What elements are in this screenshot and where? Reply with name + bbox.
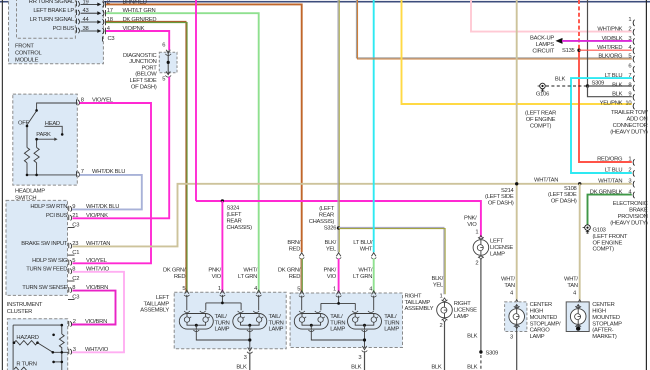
svg-text:VIO/BLK: VIO/BLK [602, 36, 623, 42]
svg-text:LICENSE: LICENSE [454, 308, 477, 314]
svg-text:RED: RED [289, 246, 301, 252]
svg-text:5: 5 [72, 258, 75, 264]
label PNK/VIO right taillamp pin 1 [324, 267, 337, 292]
svg-text:MOUNTED: MOUNTED [592, 315, 620, 321]
splice S135 [562, 48, 581, 54]
IC pin HDLP SW SIG 5 [32, 258, 108, 266]
splice S309 upper [586, 80, 604, 87]
FCM pin PCI BUS [53, 26, 115, 42]
svg-text:BACK-UP: BACK-UP [530, 36, 554, 42]
label BLK/YEL above chevron [324, 240, 337, 252]
wire BLK from left license lamp to S309 lower [467, 259, 481, 353]
svg-text:TURN: TURN [330, 320, 345, 326]
svg-text:R TURN: R TURN [16, 361, 36, 367]
svg-text:2: 2 [628, 27, 631, 33]
label DK GRN/RED right taillamp pin 5 [278, 267, 301, 292]
svg-text:3: 3 [628, 36, 631, 42]
right license lamp [431, 276, 477, 329]
IC pin TURN SW SENSE 8 [22, 285, 108, 300]
svg-text:4: 4 [254, 286, 258, 292]
svg-text:VIO: VIO [327, 274, 337, 280]
headlamp switch pin 8 [77, 98, 114, 106]
svg-text:LT BLU: LT BLU [605, 168, 623, 174]
svg-text:LT BLU: LT BLU [605, 73, 623, 79]
svg-text:WHT/DK BLU: WHT/DK BLU [86, 204, 119, 210]
svg-text:PORT: PORT [142, 65, 158, 71]
center high mounted stoplamp aftermarket box [566, 302, 622, 340]
svg-text:1: 1 [475, 229, 478, 235]
connector chevron on BRN/RED feed [299, 253, 304, 259]
svg-text:LR TURN SIGNAL: LR TURN SIGNAL [30, 17, 75, 23]
svg-text:YEL: YEL [433, 282, 444, 288]
svg-text:(LEFT FRONT: (LEFT FRONT [593, 234, 628, 240]
svg-text:3: 3 [628, 179, 631, 185]
wire BLK from right license lamp to bottom [431, 321, 444, 370]
svg-text:1: 1 [440, 293, 443, 299]
wire BLK from top edge to S309 [587, 0, 589, 86]
hazard switch pin 2 [69, 319, 107, 327]
connector chevron on LT BLU/WHT feed [371, 253, 376, 259]
svg-text:BLK/ORG: BLK/ORG [598, 54, 623, 60]
svg-text:RED: RED [174, 274, 186, 280]
svg-text:WHT/TAN: WHT/TAN [534, 178, 558, 184]
wire YEL/PNK from top edge to trailer tow pin 10 [402, 0, 632, 104]
svg-text:S135: S135 [562, 48, 575, 54]
svg-text:(LEFT REAR: (LEFT REAR [525, 111, 556, 117]
right taillamp assembly box [290, 293, 402, 348]
svg-text:19: 19 [83, 0, 89, 5]
cargo lamp WHT/TAN label and pin 4 [501, 276, 519, 306]
svg-text:TAIL/: TAIL/ [384, 314, 397, 320]
wire PNK/VIO below chevron to right taillamp pin 1 [338, 259, 340, 293]
svg-text:ASSEMBLY: ASSEMBLY [140, 308, 169, 314]
svg-text:ASSEMBLY: ASSEMBLY [405, 306, 434, 312]
svg-text:PROVISION: PROVISION [618, 214, 648, 220]
left taillamp assembly label [140, 295, 169, 314]
svg-text:4: 4 [573, 291, 577, 297]
hazard switch box [7, 319, 67, 370]
diagnostic junction port [123, 43, 177, 91]
svg-text:STOPLAMP/: STOPLAMP/ [530, 321, 561, 327]
svg-text:CENTER: CENTER [592, 302, 614, 308]
FCM pin LR TURN SIGNAL [30, 17, 113, 25]
svg-text:TURN: TURN [384, 320, 399, 326]
svg-text:8: 8 [628, 82, 631, 88]
svg-text:5: 5 [628, 54, 631, 60]
back-up lamps circuit arrow on VIO/BLK [530, 36, 632, 55]
svg-text:DIAGNOSTIC: DIAGNOSTIC [123, 53, 157, 59]
svg-text:PNK/: PNK/ [324, 267, 337, 273]
svg-text:CHASSIS): CHASSIS) [309, 219, 335, 225]
svg-text:LAMP: LAMP [384, 327, 399, 333]
svg-text:OF DASH): OF DASH) [131, 84, 157, 90]
svg-text:MOUNTED: MOUNTED [530, 315, 558, 321]
svg-text:2: 2 [628, 168, 631, 174]
svg-text:LICENSE: LICENSE [490, 245, 513, 251]
svg-text:CARGO: CARGO [530, 328, 551, 334]
svg-text:(LEFT: (LEFT [319, 206, 335, 212]
right taillamp internal wiring [302, 296, 374, 311]
svg-text:LT BLU/: LT BLU/ [353, 240, 373, 246]
svg-text:WHT/: WHT/ [564, 276, 578, 282]
label WHT/LT GRN right taillamp pin 4 [353, 267, 373, 292]
svg-text:DK GRN/: DK GRN/ [163, 267, 186, 273]
svg-text:3: 3 [244, 355, 247, 361]
svg-text:S108: S108 [564, 186, 577, 192]
svg-text:HIGH: HIGH [530, 309, 544, 315]
svg-text:VIO: VIO [212, 274, 222, 280]
page top border [0, 1, 650, 3]
svg-text:LAMP: LAMP [215, 327, 230, 333]
svg-text:G106: G106 [536, 91, 549, 97]
svg-text:OF ENGINE: OF ENGINE [593, 240, 623, 246]
svg-text:1: 1 [628, 157, 631, 163]
svg-text:PCI BUS: PCI BUS [46, 213, 68, 219]
svg-text:9: 9 [72, 204, 75, 210]
wire WHT/LT GRN below chevron to right taillamp pin 4 [373, 259, 375, 293]
svg-text:OF ENGINE: OF ENGINE [526, 117, 556, 123]
svg-text:(BELOW: (BELOW [135, 72, 157, 78]
svg-text:FRONT: FRONT [15, 43, 34, 49]
svg-text:4: 4 [510, 291, 514, 297]
svg-text:3: 3 [358, 355, 361, 361]
wire BLK left taillamp pin 3 to bottom [236, 353, 249, 370]
svg-text:9: 9 [628, 92, 631, 98]
left taillamp bulb 2 TAIL/TURN LAMP [233, 311, 284, 333]
svg-text:LEFT: LEFT [490, 239, 504, 245]
svg-text:LT GRN: LT GRN [238, 274, 257, 280]
svg-text:43: 43 [83, 8, 89, 14]
svg-text:44: 44 [83, 17, 90, 23]
svg-text:ELECTRONIC: ELECTRONIC [613, 201, 648, 207]
svg-text:BLK: BLK [612, 82, 623, 88]
left taillamp assembly box [174, 292, 286, 349]
splice S324 [221, 199, 252, 231]
connector chevron on BLK/YEL feed [336, 253, 341, 259]
svg-text:(LEFT: (LEFT [227, 212, 243, 218]
svg-text:JUNCTION: JUNCTION [129, 59, 156, 65]
svg-text:BLK: BLK [351, 365, 362, 370]
svg-text:BLK: BLK [612, 92, 623, 98]
wire DK GRN/BLK from electronic brake pin 4 to G103 [588, 195, 632, 225]
svg-text:7: 7 [628, 73, 631, 79]
svg-text:TRAILER TOW: TRAILER TOW [611, 110, 648, 116]
svg-text:TAILLAMP: TAILLAMP [143, 301, 169, 307]
svg-text:TURN: TURN [215, 320, 230, 326]
wire VIO/PNK from FCM pin 4 to diagnostic port [106, 26, 169, 50]
svg-text:5: 5 [297, 287, 300, 293]
wire BLK dashed from G106 to S309 [546, 77, 588, 86]
wire BLK/ORG from top edge to trailer tow pin 5 [356, 0, 631, 59]
svg-text:WHT/PNK: WHT/PNK [597, 27, 622, 33]
right taillamp assembly label [405, 293, 434, 312]
svg-text:LEFT BRAKE LP: LEFT BRAKE LP [33, 8, 74, 14]
svg-text:BRN/: BRN/ [287, 240, 300, 246]
right taillamp ground bus [311, 330, 367, 352]
svg-text:S324: S324 [227, 206, 241, 212]
wire BLK dashed below S309 [467, 355, 481, 370]
wire PNK/VIO from S324 down to left taillamp pin 1 [221, 201, 223, 292]
svg-text:(AFTER-: (AFTER- [592, 328, 613, 334]
svg-text:MARKET): MARKET) [592, 334, 617, 340]
svg-text:2: 2 [475, 260, 478, 266]
wire VIO/PNK vertical from top edge to S324 line [195, 0, 197, 201]
left taillamp internal wiring [187, 295, 259, 310]
left taillamp ground bus [196, 330, 252, 354]
svg-text:COMPT): COMPT) [530, 123, 552, 129]
wire VIO/BRN from IC pin 8 to hazard switch pin 2 [72, 291, 116, 325]
svg-text:PARK: PARK [36, 132, 51, 138]
svg-text:LAMP: LAMP [530, 334, 545, 340]
splice S108 on WHT/TAN line [548, 182, 581, 205]
svg-text:G103: G103 [593, 228, 606, 234]
svg-text:BLK: BLK [236, 365, 247, 370]
svg-text:2: 2 [440, 323, 443, 329]
svg-text:LAMP: LAMP [269, 327, 284, 333]
svg-text:BLK: BLK [431, 365, 442, 370]
trailer tow connector label [610, 110, 648, 135]
svg-text:HEADLAMP: HEADLAMP [15, 189, 45, 195]
svg-text:COMPT): COMPT) [593, 247, 615, 253]
svg-text:OF DASH): OF DASH) [488, 201, 514, 207]
wire WHT/DK BLU to instrument cluster pin 9 [72, 175, 142, 210]
svg-text:BLK/: BLK/ [431, 276, 443, 282]
svg-text:RIGHT: RIGHT [454, 301, 471, 307]
svg-text:BRAKE SW INPUT: BRAKE SW INPUT [21, 241, 68, 247]
svg-text:CIRCUIT: CIRCUIT [532, 49, 554, 55]
svg-text:YEL: YEL [326, 246, 337, 252]
wire BLK cargo lamp pin 3 to bottom [510, 332, 517, 370]
svg-text:RR TURN SIGNAL: RR TURN SIGNAL [29, 0, 75, 5]
wire DK GRN/RED below chevron to right taillamp pin 5 [301, 259, 302, 293]
svg-text:TAIL/: TAIL/ [269, 314, 282, 320]
svg-text:ADD ON: ADD ON [627, 117, 648, 123]
svg-text:PNK/: PNK/ [208, 267, 221, 273]
svg-text:LAMP: LAMP [490, 251, 505, 257]
svg-text:WHT/: WHT/ [501, 276, 515, 282]
svg-text:BLK: BLK [467, 365, 478, 370]
headlamp switch internals [18, 103, 76, 176]
svg-text:CONTROL: CONTROL [15, 50, 43, 56]
label DK GRN/RED left taillamp pin 5 [163, 267, 186, 292]
svg-text:LAMPS: LAMPS [536, 42, 555, 48]
svg-text:OFF: OFF [18, 120, 30, 126]
svg-text:VIO/PNK: VIO/PNK [86, 213, 108, 219]
electronic brake connector label [610, 201, 648, 226]
right taillamp entry pins [299, 291, 377, 297]
svg-text:2: 2 [73, 319, 76, 325]
left license lamp [464, 216, 513, 267]
wire BLK/YEL branch S326 to right license lamp [339, 227, 446, 294]
wire WHT/VIO from IC pin 8 to hazard switch pin 3 [72, 272, 125, 353]
svg-text:HAZARD: HAZARD [16, 335, 38, 341]
svg-text:TAIL/: TAIL/ [215, 314, 228, 320]
svg-text:C3: C3 [108, 36, 115, 42]
wire WHT/LT GRN from FCM pin 17 [106, 8, 259, 292]
wire BLK/YEL vertical from top edge through S326 [338, 0, 339, 252]
svg-text:RED: RED [289, 274, 301, 280]
svg-text:STOPLAMP: STOPLAMP [592, 321, 622, 327]
svg-text:PCI BUS: PCI BUS [53, 26, 75, 32]
svg-text:LT GRN: LT GRN [353, 274, 372, 280]
page right border [646, 0, 647, 370]
svg-text:LEFT SIDE: LEFT SIDE [130, 78, 157, 84]
wire WHT/TAN from IC pin 23 long horizontal to electronic brake pin 3 [73, 184, 632, 247]
label BRN/RED above chevron [287, 240, 300, 252]
svg-text:(HEAVY DUTY): (HEAVY DUTY) [610, 220, 648, 226]
FCM pin RR TURN SIGNAL [29, 0, 110, 8]
headlamp switch pin 7 [77, 169, 126, 177]
FCM pin LEFT BRAKE LP [33, 8, 112, 16]
wire BLK right taillamp pin 3 to bottom [351, 351, 364, 370]
center high mounted stoplamp cargo lamp box [505, 302, 561, 340]
splice S214 on WHT/TAN line [485, 178, 558, 207]
svg-text:WHT/RED: WHT/RED [597, 45, 622, 51]
svg-text:BLK: BLK [555, 77, 566, 83]
wire WHT/TAN from S108 down to aftermarket stoplamp [579, 184, 581, 300]
instrument cluster box [6, 200, 68, 314]
svg-text:BLK/: BLK/ [324, 240, 336, 246]
svg-text:LEFT: LEFT [156, 295, 170, 301]
svg-text:CENTER: CENTER [530, 302, 552, 308]
IC pin BRAKE SW INPUT 23 [21, 241, 110, 256]
wire BLK from S309 to trailer pin 9 [588, 86, 632, 97]
svg-text:INSTRUMENT: INSTRUMENT [7, 302, 43, 308]
svg-text:VIO/YEL: VIO/YEL [86, 258, 108, 264]
svg-text:RIGHT: RIGHT [405, 293, 422, 299]
svg-text:4: 4 [369, 287, 373, 293]
trailer tow connector pins [597, 17, 634, 109]
wire VIO/YEL to instrument cluster pin 5 [73, 103, 152, 263]
svg-text:VIO/BRN: VIO/BRN [85, 319, 107, 325]
splice S326 [309, 206, 341, 232]
svg-text:TAIL/: TAIL/ [330, 314, 343, 320]
aftermarket stoplamp WHT/TAN label and pin 4 [564, 276, 582, 306]
svg-text:5: 5 [162, 77, 165, 83]
wire LT BLU/WHT vertical from top edge [373, 0, 375, 252]
wire VIO/PNK diagnostic port to instrument cluster pin 21 [73, 77, 170, 219]
svg-text:5: 5 [182, 286, 185, 292]
svg-text:LAMP: LAMP [330, 327, 345, 333]
wire DK GRN/RED from FCM pin 18 [106, 17, 187, 292]
right taillamp bulb 1 TAIL/TURN LAMP [294, 311, 345, 333]
label PNK/VIO left taillamp pin 1 [208, 267, 221, 292]
svg-text:TAN: TAN [567, 283, 577, 289]
svg-text:TURN SW FEED: TURN SW FEED [26, 266, 67, 272]
svg-text:TAILLAMP: TAILLAMP [405, 300, 431, 306]
svg-text:6: 6 [628, 64, 631, 70]
svg-text:WHT/TAN: WHT/TAN [598, 179, 622, 185]
svg-text:(LEFT SIDE: (LEFT SIDE [485, 194, 514, 200]
svg-text:PNK/: PNK/ [464, 216, 477, 222]
svg-text:RED/ORG: RED/ORG [597, 157, 623, 163]
svg-text:HDLP SW SIG: HDLP SW SIG [32, 258, 68, 264]
left taillamp bulb 1 TAIL/TURN LAMP [179, 311, 229, 333]
svg-text:WHT/VIO: WHT/VIO [85, 347, 109, 353]
svg-text:3: 3 [510, 334, 513, 340]
left taillamp entry pins [184, 290, 262, 296]
svg-text:6: 6 [162, 43, 165, 49]
svg-text:10: 10 [625, 100, 631, 106]
svg-text:1: 1 [333, 287, 336, 293]
svg-text:CHASSIS): CHASSIS) [227, 225, 253, 231]
svg-text:BRAKE: BRAKE [629, 208, 648, 214]
svg-text:VIO: VIO [467, 222, 477, 228]
svg-text:REAR: REAR [227, 218, 242, 224]
svg-text:BLK: BLK [467, 334, 478, 340]
wire WHT/RED dashed from top edge [578, 0, 580, 49]
svg-text:CLUSTER: CLUSTER [7, 309, 32, 315]
svg-text:WHT: WHT [360, 246, 373, 252]
svg-text:DK GRN/: DK GRN/ [278, 267, 301, 273]
electronic brake connector pins [590, 157, 635, 199]
label WHT/LT GRN left taillamp pin 4 [238, 267, 258, 292]
wire PNK/VIO S324 horizontal to left license lamp [196, 201, 481, 237]
svg-text:CONNECTOR: CONNECTOR [613, 123, 648, 129]
svg-text:1: 1 [218, 286, 221, 292]
svg-text:OF DASH): OF DASH) [551, 199, 577, 205]
ground G106 [525, 83, 556, 129]
wire RED/ORG from S135 to trailer tow pin 1 of electronic brake [579, 49, 632, 162]
page left border [2, 0, 3, 370]
wire LT BLU big loop trailer pin 7 to electronic brake pin 2 [571, 78, 632, 173]
wire WHT/RED from S135 to trailer tow pin 4 [579, 49, 632, 51]
svg-text:S309: S309 [486, 350, 499, 356]
IC pin PCI BUS 21 [46, 213, 108, 229]
svg-text:MODULE: MODULE [15, 57, 39, 63]
headlamp switch box [13, 94, 78, 201]
hazard switch internals [13, 324, 68, 370]
ground G103 [583, 225, 628, 253]
wire WHT/PNK from top edge to trailer tow pin 2 [471, 0, 632, 32]
svg-text:TURN: TURN [269, 320, 284, 326]
svg-text:S326: S326 [324, 226, 337, 232]
svg-text:REAR: REAR [319, 213, 334, 219]
front control module box [9, 0, 104, 64]
svg-text:YEL/PNK: YEL/PNK [600, 100, 623, 106]
label LT BLU/WHT above chevron [353, 240, 373, 252]
svg-text:WHT/: WHT/ [243, 267, 257, 273]
svg-text:1: 1 [628, 17, 631, 23]
svg-text:HDLP SW RTN: HDLP SW RTN [30, 204, 67, 210]
svg-text:TURN SW SENSE: TURN SW SENSE [22, 285, 67, 291]
wire WHT/TAN from top edge to cargo lamp [516, 0, 518, 300]
svg-text:LAMP: LAMP [454, 314, 469, 320]
svg-text:HIGH: HIGH [592, 309, 606, 315]
hazard switch pin 3 [69, 347, 109, 355]
svg-text:(LEFT SIDE: (LEFT SIDE [548, 192, 577, 198]
svg-text:S214: S214 [501, 188, 515, 194]
IC pin HDLP SW RTN 9 [30, 204, 119, 212]
svg-text:3: 3 [73, 347, 76, 353]
right taillamp bulb 2 TAIL/TURN LAMP [348, 311, 400, 333]
svg-text:21: 21 [72, 213, 78, 219]
wire BRN/RED from FCM pin 2 [106, 0, 302, 252]
svg-text:38: 38 [83, 26, 89, 32]
svg-text:(HEAVY DUTY): (HEAVY DUTY) [610, 129, 648, 135]
wire BLK from S309 to trailer pin 8 [588, 85, 632, 87]
svg-text:TAN: TAN [504, 283, 514, 289]
IC pin TURN SW FEED 8 [26, 266, 110, 282]
svg-text:WHT/: WHT/ [358, 267, 372, 273]
splice S309 lower [479, 350, 498, 356]
